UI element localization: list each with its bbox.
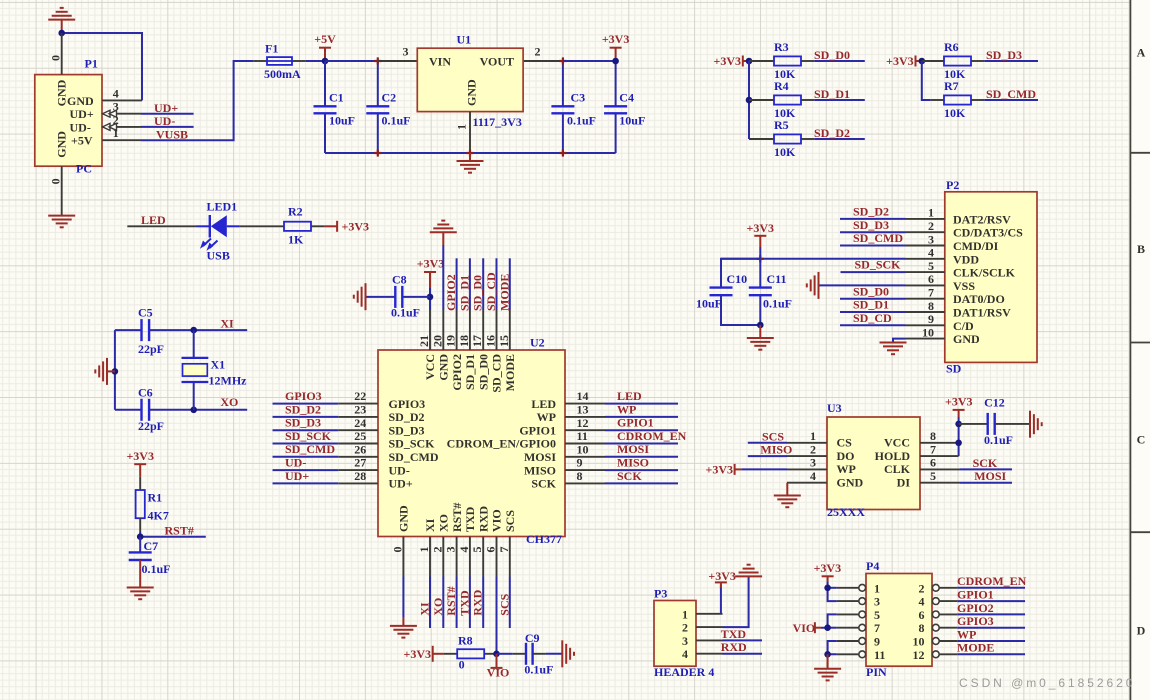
svg-text:SD_CMD: SD_CMD — [986, 87, 1036, 101]
svg-text:GPIO1: GPIO1 — [957, 588, 994, 602]
svg-text:D: D — [1137, 624, 1146, 638]
svg-text:P1: P1 — [85, 57, 98, 71]
svg-text:C5: C5 — [138, 306, 153, 320]
P2 pin names — [953, 212, 1023, 346]
svg-text:1: 1 — [113, 126, 119, 140]
svg-text:CSDN @m0_61852620: CSDN @m0_61852620 — [959, 676, 1135, 690]
svg-text:XI: XI — [220, 317, 234, 331]
svg-text:HEADER 4: HEADER 4 — [654, 665, 714, 679]
svg-text:DAT1/RSV: DAT1/RSV — [953, 306, 1011, 320]
svg-text:MISO: MISO — [617, 456, 649, 470]
svg-text:UD-: UD- — [70, 120, 91, 134]
svg-text:22: 22 — [354, 389, 366, 403]
svg-text:C/D: C/D — [953, 319, 974, 333]
svg-text:C2: C2 — [382, 90, 397, 104]
svg-text:2: 2 — [430, 547, 444, 553]
capacitor C12 — [959, 423, 988, 425]
svg-text:DAT2/RSV: DAT2/RSV — [953, 212, 1011, 226]
IC U2 CH377 box — [378, 350, 565, 537]
svg-text:GPIO2: GPIO2 — [957, 601, 994, 615]
wire U3 GND — [786, 483, 788, 496]
svg-text:PIN: PIN — [866, 665, 887, 679]
svg-text:VSS: VSS — [953, 279, 975, 293]
wires GPIO2/SD_D1/SD_D0/SD_CD/MODE up — [457, 258, 510, 310]
net labels left of U2 — [285, 389, 335, 483]
svg-text:CH377: CH377 — [526, 532, 562, 546]
LED LED1 — [209, 215, 211, 238]
svg-text:3: 3 — [403, 44, 409, 58]
svg-text:SD_D0: SD_D0 — [814, 48, 850, 62]
wire U2 GND bottom — [402, 577, 404, 618]
svg-text:VCC: VCC — [884, 436, 910, 450]
junction dot — [919, 58, 926, 65]
svg-text:+3V3: +3V3 — [713, 54, 741, 68]
svg-text:SCK: SCK — [973, 456, 998, 470]
svg-text:SD_D0: SD_D0 — [476, 354, 490, 390]
svg-text:10uF: 10uF — [619, 113, 645, 127]
svg-text:4: 4 — [928, 246, 934, 260]
svg-text:SD_D2: SD_D2 — [853, 205, 889, 219]
svg-text:0.1uF: 0.1uF — [382, 113, 411, 127]
power VIO (below dot) — [496, 654, 498, 668]
svg-text:WP: WP — [837, 462, 856, 476]
wire net MOSI (U3.5) — [960, 482, 1012, 484]
U3 right pins 8-5 — [920, 443, 960, 483]
svg-text:SD: SD — [946, 362, 962, 376]
svg-text:2: 2 — [928, 219, 934, 233]
svg-text:25XXX: 25XXX — [827, 505, 865, 519]
ground (bottom of P1) — [48, 216, 75, 228]
resistor R7 — [931, 99, 944, 101]
svg-text:+3V3: +3V3 — [342, 220, 370, 234]
junction dot RST# — [137, 533, 144, 540]
resistor R2 — [284, 222, 311, 231]
svg-text:SD_D3: SD_D3 — [285, 416, 321, 430]
svg-text:MOSI: MOSI — [974, 469, 1006, 483]
svg-text:9: 9 — [928, 312, 934, 326]
wire net UD- — [141, 126, 194, 128]
wire GND (P2.6 VSS) — [819, 284, 906, 286]
svg-text:7: 7 — [874, 621, 880, 635]
svg-text:UD-: UD- — [389, 463, 410, 477]
connector P1 — [35, 75, 102, 167]
wire net RST# — [139, 532, 141, 537]
svg-text:DI: DI — [897, 476, 911, 490]
wire net RXD (P3.4) — [723, 653, 763, 655]
pin 2 UD- of P1 — [102, 126, 141, 128]
svg-text:C4: C4 — [619, 90, 634, 104]
svg-text:C10: C10 — [727, 272, 748, 286]
wire net SCS (U3.1) — [748, 442, 787, 444]
wire net SD_SCK (P2.5) — [841, 271, 906, 273]
ground (VSS, pointing left) — [807, 272, 819, 299]
svg-text:3: 3 — [874, 595, 880, 609]
ground (C8, pointing left) — [354, 283, 366, 310]
svg-text:4: 4 — [810, 469, 816, 483]
wire net SD_D1 — [814, 99, 865, 101]
wire net MISO (U3.2) — [748, 455, 787, 457]
svg-text:R2: R2 — [288, 205, 303, 219]
svg-text:23: 23 — [354, 403, 366, 417]
wire net SD_D3 (P2.2) — [840, 231, 906, 233]
wire net GPIO2 (P4.6) — [957, 613, 1025, 615]
svg-text:6: 6 — [919, 608, 925, 622]
svg-text:+3V3: +3V3 — [814, 561, 842, 575]
svg-text:GPIO3: GPIO3 — [285, 389, 322, 403]
junction cross C3 top — [559, 57, 566, 64]
U2 left wires — [273, 404, 339, 484]
svg-text:SD_CMD: SD_CMD — [285, 442, 335, 456]
svg-text:MOSI: MOSI — [524, 450, 556, 464]
wire net GPIO3 (P4.8) — [957, 627, 1025, 629]
svg-text:1: 1 — [874, 581, 880, 595]
wire P4.9/11 to ground — [828, 641, 837, 654]
junction dot C8/VCC — [427, 294, 434, 301]
svg-text:11: 11 — [874, 648, 885, 662]
wire net XI — [194, 329, 248, 331]
pin 4 GND of P1 — [102, 99, 142, 101]
P4 left pins 1,3,5,7,9,11 — [837, 584, 866, 657]
wire net +3V3 (P2.4 VDD) — [721, 258, 906, 260]
rotated net labels above U2 — [444, 272, 511, 311]
ground (top of P1) — [48, 8, 75, 33]
svg-text:0.1uF: 0.1uF — [391, 306, 420, 320]
svg-text:WP: WP — [537, 410, 556, 424]
svg-text:SCK: SCK — [617, 469, 642, 483]
svg-text:XI: XI — [423, 518, 437, 532]
rotated net labels below U2 — [418, 586, 512, 615]
power +3V3 (U2 VCC) — [429, 272, 431, 288]
wire net SD_D2 — [814, 138, 865, 140]
svg-text:12MHz: 12MHz — [209, 374, 248, 388]
svg-text:1: 1 — [810, 429, 816, 443]
junction cross VDD rail — [757, 255, 764, 262]
svg-text:SCS: SCS — [503, 510, 517, 532]
capacitor C4 — [615, 61, 617, 106]
svg-text:+5V: +5V — [71, 134, 93, 148]
svg-text:5: 5 — [930, 469, 936, 483]
net labels right of U2 — [617, 389, 687, 483]
svg-text:RXD: RXD — [721, 640, 747, 654]
svg-text:6: 6 — [484, 547, 498, 553]
svg-text:VDD: VDD — [953, 252, 979, 266]
power +5V — [324, 48, 326, 61]
wire net SD_CD (P2.9) — [840, 324, 906, 326]
svg-text:UD+: UD+ — [154, 101, 178, 115]
junction dot XI — [190, 327, 197, 334]
svg-text:GPIO2: GPIO2 — [444, 274, 458, 311]
resistor R8 — [444, 653, 457, 655]
svg-text:7: 7 — [930, 442, 936, 456]
svg-text:R8: R8 — [458, 634, 473, 648]
wire F1 to +5V node — [305, 60, 325, 62]
svg-text:SD_D1: SD_D1 — [457, 275, 471, 311]
capacitor C10 — [721, 259, 760, 288]
wire net TXD (P3.3) — [723, 639, 763, 641]
connector P3 — [654, 601, 696, 667]
svg-text:0.1uF: 0.1uF — [142, 562, 171, 576]
wire C5/C6 left vertical — [114, 330, 116, 410]
regulator U1 — [378, 60, 418, 62]
svg-text:VUSB: VUSB — [156, 127, 188, 141]
ground (P3.2, pointing up) — [735, 565, 762, 577]
svg-text:WP: WP — [957, 627, 976, 641]
svg-text:LED: LED — [141, 213, 166, 227]
svg-text:MODE: MODE — [957, 641, 994, 655]
svg-text:TXD: TXD — [457, 590, 471, 616]
svg-text:UD+: UD+ — [285, 469, 309, 483]
svg-text:1: 1 — [928, 206, 934, 220]
wire net SD_D0 — [814, 60, 865, 62]
svg-text:1: 1 — [455, 124, 469, 130]
svg-text:8: 8 — [928, 299, 934, 313]
svg-text:CDROM_EN/GPIO0: CDROM_EN/GPIO0 — [447, 437, 556, 451]
svg-text:1: 1 — [417, 547, 431, 553]
svg-text:1K: 1K — [288, 233, 304, 247]
junction dot VIO — [493, 651, 500, 658]
svg-text:P3: P3 — [654, 587, 667, 601]
junction cross rail U1 — [466, 149, 473, 156]
svg-text:500mA: 500mA — [264, 67, 301, 81]
svg-text:8: 8 — [577, 469, 583, 483]
svg-text:SD_D1: SD_D1 — [853, 298, 889, 312]
svg-text:8: 8 — [919, 621, 925, 635]
svg-text:4K7: 4K7 — [148, 508, 169, 522]
svg-text:X1: X1 — [211, 358, 226, 372]
svg-text:4: 4 — [457, 547, 471, 553]
svg-text:GPIO1: GPIO1 — [519, 423, 556, 437]
svg-text:3: 3 — [444, 547, 458, 553]
svg-text:GPIO3: GPIO3 — [389, 397, 426, 411]
svg-text:10K: 10K — [774, 145, 796, 159]
capacitor C3 — [562, 61, 564, 106]
pin 0 (top) of P1 — [61, 33, 63, 75]
connector P4 — [866, 574, 932, 667]
svg-text:GND: GND — [837, 476, 864, 490]
ground (U2 bottom) — [390, 617, 417, 638]
svg-text:SD_D1: SD_D1 — [463, 354, 477, 390]
svg-text:LED: LED — [531, 397, 556, 411]
wire net UD+ — [141, 113, 194, 115]
U2 right pins 14-8 — [565, 404, 605, 484]
wire net SD_D2 (P2.1) — [840, 218, 906, 220]
P2 pin numbers — [922, 206, 934, 340]
pin 1 of U1 — [469, 112, 471, 153]
svg-text:27: 27 — [354, 456, 366, 470]
capacitor C11 — [759, 259, 761, 288]
svg-text:9: 9 — [874, 635, 880, 649]
svg-text:2: 2 — [810, 442, 816, 456]
svg-text:SD_D3: SD_D3 — [853, 218, 889, 232]
svg-text:C7: C7 — [144, 539, 159, 553]
svg-text:11: 11 — [577, 429, 588, 443]
P2 pins 1-10 — [906, 219, 945, 339]
wire net SD_D1 (P2.8) — [840, 311, 906, 313]
resistor R5 — [749, 138, 774, 140]
svg-text:10: 10 — [922, 325, 934, 339]
capacitor C9 — [498, 653, 513, 655]
svg-text:A: A — [1137, 46, 1146, 60]
junction dot XO — [190, 407, 197, 414]
capacitor C7 — [139, 537, 141, 553]
svg-text:C9: C9 — [525, 631, 540, 645]
svg-text:4: 4 — [919, 595, 925, 609]
capacitor C5 — [115, 329, 142, 331]
wire U1 VOUT to +3V3 — [563, 60, 616, 62]
wires XI XO RST# TXD RXD down — [430, 577, 483, 629]
svg-text:2: 2 — [682, 621, 688, 635]
resistor R4 — [749, 99, 774, 101]
svg-text:15: 15 — [497, 335, 511, 347]
svg-text:VIO: VIO — [793, 621, 816, 635]
wire +3V3 vertical to R4 R5 — [748, 61, 750, 139]
pin 1 +5V of P1 — [102, 139, 141, 141]
ground (P4) — [814, 654, 841, 680]
svg-text:4: 4 — [113, 86, 119, 100]
svg-text:C6: C6 — [138, 385, 153, 399]
svg-text:GND: GND — [55, 131, 69, 158]
power +3V3 (P3.1) — [720, 586, 722, 614]
junction cross C2 top — [374, 57, 381, 64]
svg-text:C3: C3 — [571, 90, 586, 104]
svg-text:3: 3 — [682, 634, 688, 648]
svg-text:R5: R5 — [774, 118, 789, 132]
svg-text:+3V3: +3V3 — [417, 256, 445, 270]
junction dot +5V node — [322, 58, 329, 65]
svg-text:MODE: MODE — [503, 354, 517, 391]
svg-text:14: 14 — [577, 389, 589, 403]
svg-text:MOSI: MOSI — [617, 442, 649, 456]
wire net LED — [127, 225, 196, 227]
svg-text:C1: C1 — [329, 90, 344, 104]
ground (C12, pointing right) — [1030, 411, 1042, 438]
svg-text:UD-: UD- — [285, 456, 306, 470]
svg-text:4: 4 — [682, 647, 688, 661]
power +3V3 — [615, 48, 617, 61]
svg-text:XO: XO — [431, 598, 445, 616]
svg-text:R7: R7 — [944, 79, 959, 93]
svg-text:HOLD: HOLD — [875, 449, 911, 463]
svg-text:20: 20 — [430, 335, 444, 347]
svg-text:RXD: RXD — [471, 589, 485, 615]
svg-text:UD+: UD+ — [389, 477, 413, 491]
svg-text:GND: GND — [953, 332, 980, 346]
svg-text:10: 10 — [577, 442, 589, 456]
svg-text:UD+: UD+ — [70, 107, 94, 121]
wire VCC to +3V3 — [429, 288, 431, 310]
svg-text:SD_D2: SD_D2 — [285, 402, 321, 416]
svg-text:16: 16 — [484, 335, 498, 347]
svg-text:0: 0 — [390, 547, 404, 553]
svg-text:+3V3: +3V3 — [945, 395, 973, 409]
capacitor C8 — [402, 296, 430, 298]
svg-text:7: 7 — [497, 547, 511, 553]
wire net SD_D0 (P2.7) — [840, 298, 906, 300]
capacitor C1 — [324, 61, 326, 106]
svg-text:0: 0 — [49, 178, 63, 184]
ground (C7) — [127, 560, 154, 599]
svg-text:R6: R6 — [944, 40, 959, 54]
svg-text:C8: C8 — [392, 273, 407, 287]
resistor R1 — [139, 477, 141, 490]
svg-text:LED: LED — [617, 389, 642, 403]
wire P3.2 to ground — [723, 576, 749, 627]
wire net SD_D3 — [984, 60, 1038, 62]
svg-text:CDROM_EN: CDROM_EN — [957, 574, 1027, 588]
wire SCS down — [509, 577, 511, 629]
svg-text:24: 24 — [354, 416, 366, 430]
junction dot +3V3 node — [612, 58, 619, 65]
svg-text:XO: XO — [437, 514, 451, 532]
svg-text:GPIO3: GPIO3 — [957, 614, 994, 628]
svg-text:DO: DO — [837, 449, 855, 463]
svg-text:13: 13 — [577, 403, 589, 417]
svg-text:VIO: VIO — [487, 666, 510, 680]
svg-text:P2: P2 — [946, 178, 959, 192]
svg-text:SCS: SCS — [762, 429, 784, 443]
resistor R3 — [749, 60, 774, 62]
wire net SD_CMD — [984, 99, 1038, 101]
wire ground rail — [325, 152, 616, 154]
svg-text:RST#: RST# — [444, 586, 458, 615]
svg-text:B: B — [1137, 242, 1145, 256]
svg-text:6: 6 — [928, 272, 934, 286]
svg-text:9: 9 — [577, 456, 583, 470]
svg-text:RST#: RST# — [450, 503, 464, 532]
wire LED to R2 — [240, 225, 284, 227]
svg-text:U3: U3 — [827, 401, 842, 415]
svg-text:1: 1 — [682, 607, 688, 621]
svg-text:USB: USB — [207, 249, 230, 263]
connector P2 — [945, 192, 1037, 363]
svg-text:SD_D0: SD_D0 — [471, 275, 485, 311]
svg-text:0.1uF: 0.1uF — [984, 433, 1013, 447]
svg-text:C11: C11 — [767, 272, 787, 286]
power +3V3 (U3 VCC) — [958, 410, 960, 417]
svg-text:TXD: TXD — [463, 506, 477, 532]
wire net WP (P4.10) — [957, 640, 1025, 642]
svg-text:R3: R3 — [774, 40, 789, 54]
svg-text:CLK: CLK — [884, 462, 911, 476]
svg-text:R1: R1 — [148, 491, 163, 505]
svg-text:3: 3 — [810, 456, 816, 470]
wire U3 VCC/HOLD to +3V3 — [958, 417, 960, 456]
svg-text:+3V3: +3V3 — [708, 569, 736, 583]
svg-text:22pF: 22pF — [138, 419, 164, 433]
junction dot — [58, 30, 65, 37]
svg-text:WP: WP — [617, 402, 636, 416]
svg-text:26: 26 — [354, 442, 366, 456]
P4 right pins 2,4,6,8,10,12 — [932, 584, 957, 657]
pin 0 (bottom) of P1 — [61, 166, 63, 215]
svg-text:12: 12 — [577, 416, 589, 430]
svg-text:5: 5 — [470, 547, 484, 553]
wire net XO — [194, 409, 248, 411]
svg-text:0.1uF: 0.1uF — [763, 297, 792, 311]
ground (xtal, pointing left) — [95, 358, 115, 385]
power +3V3 (R2) — [324, 225, 337, 227]
capacitor C2 — [377, 61, 379, 106]
U3 left pins 1-4 — [787, 443, 827, 483]
ground (U2 top, pointing up) — [430, 221, 457, 233]
svg-text:GND: GND — [465, 79, 479, 106]
crystal X1 — [193, 330, 195, 358]
ground (U3 GND) — [774, 496, 801, 508]
svg-text:PC: PC — [76, 161, 92, 175]
svg-text:SD_CMD: SD_CMD — [853, 231, 903, 245]
junction cross rail C3 — [559, 149, 566, 156]
svg-text:F1: F1 — [265, 42, 278, 56]
